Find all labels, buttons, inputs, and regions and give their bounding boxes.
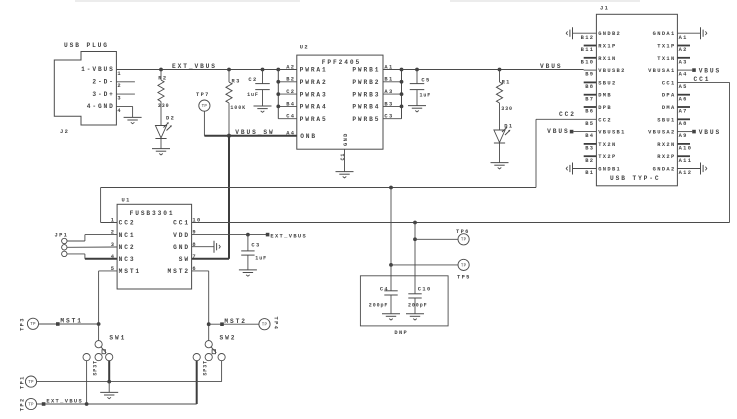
- wire J1 GNDA1 to ground: [677, 32, 700, 34]
- junction right bus row 3: [400, 92, 404, 96]
- J2 pin name 3-D+: [92, 91, 114, 98]
- ground below C5: [408, 106, 426, 112]
- svg-text:A2: A2: [286, 64, 295, 70]
- U2 pin name ONB: [300, 133, 317, 140]
- J1 pin B9: [585, 72, 594, 78]
- net tap MST1: [56, 322, 60, 326]
- svg-text:PWRB5: PWRB5: [352, 116, 380, 123]
- resistor R3: [226, 78, 246, 111]
- svg-text:C1: C1: [340, 153, 346, 161]
- test point TP5: [457, 259, 471, 280]
- LED D2: [155, 116, 175, 139]
- U1 pin name NC2: [119, 244, 136, 251]
- svg-text:NC3: NC3: [119, 256, 136, 263]
- J1 stub B7: [584, 94, 597, 96]
- wire TP2 EXT_VBUS line: [37, 403, 197, 405]
- J1 pin A2: [679, 47, 688, 53]
- U2 pin name PWRB3: [352, 91, 380, 98]
- svg-text:C2: C2: [286, 89, 295, 95]
- ground below U2: [336, 172, 354, 178]
- test point TP6: [456, 229, 470, 245]
- svg-text:VBUS: VBUS: [699, 68, 721, 75]
- wire C10 to ground: [414, 298, 416, 314]
- svg-text:D1: D1: [504, 123, 513, 129]
- wire R1 to D1: [499, 103, 501, 130]
- J2 pin name 4-GND: [87, 103, 115, 110]
- U1 pin 4: [111, 254, 116, 260]
- U2 pin A4: [286, 130, 295, 136]
- svg-text:1: 1: [111, 218, 116, 224]
- svg-text:A5: A5: [679, 84, 688, 90]
- svg-text:PWRB1: PWRB1: [352, 67, 380, 74]
- svg-text:TP7: TP7: [196, 92, 210, 98]
- label USB PLUG: [64, 42, 109, 49]
- U1 pin name VDD: [173, 232, 190, 239]
- wire C5 to ground: [416, 90, 418, 106]
- junction R2: [159, 68, 163, 72]
- svg-text:A11: A11: [679, 158, 693, 164]
- svg-text:B2: B2: [585, 158, 594, 164]
- net label CC2: [559, 111, 576, 118]
- wire C2 to ground: [262, 90, 264, 106]
- svg-text:C3: C3: [384, 114, 393, 120]
- IC U1 FUSB3301: [117, 204, 192, 289]
- wire U2 PWRA1 stub: [278, 69, 297, 71]
- wire TP7 stem: [203, 111, 205, 136]
- wire U1 GND pin: [192, 246, 214, 248]
- U2 pin name PWRB1: [352, 67, 380, 74]
- U1 pin 1: [111, 218, 116, 224]
- svg-text:SW2: SW2: [220, 334, 237, 341]
- J1 pin A7: [679, 109, 688, 115]
- svg-text:2: 2: [117, 83, 122, 89]
- capacitor C3: [241, 243, 267, 262]
- J1 stub B2: [584, 155, 597, 157]
- svg-text:VBUSA1: VBUSA1: [648, 68, 676, 74]
- svg-text:DMA: DMA: [662, 105, 676, 111]
- resistor R2: [158, 76, 170, 110]
- wire VBUS_SW thick: [204, 135, 296, 137]
- J1 pin name RX2P: [657, 154, 675, 160]
- connector J1 USB TYP-C: [596, 14, 677, 186]
- J1 pin name RX1P: [598, 44, 616, 50]
- svg-text:CC1: CC1: [694, 76, 711, 83]
- J1 pin name SBU1: [657, 117, 675, 123]
- U1 pin 6: [192, 266, 197, 272]
- switch SW1: [83, 334, 126, 375]
- wire U2 PWRB5 stub: [383, 118, 402, 120]
- wire EXT_VBUS to C2: [262, 70, 264, 84]
- capacitor C2: [247, 77, 270, 98]
- svg-text:TX1N: TX1N: [657, 56, 675, 62]
- wire JP1 pin3 down: [67, 254, 85, 259]
- U2 pin name PWRA1: [300, 67, 328, 74]
- svg-text:C3: C3: [251, 243, 260, 249]
- svg-text:J1: J1: [600, 5, 609, 11]
- net label EXT_VBUS at VDD: [270, 233, 307, 239]
- svg-text:FPF2405: FPF2405: [322, 59, 361, 66]
- ground at J1 A12: [701, 163, 707, 175]
- svg-text:200pF: 200pF: [408, 302, 428, 308]
- wire MST2 to TP4: [209, 323, 259, 325]
- wire U1 MST1 left: [99, 270, 118, 272]
- U1 pin 3: [111, 242, 116, 248]
- U2 pin name PWRA5: [300, 116, 328, 123]
- junction left bus row 3: [276, 92, 280, 96]
- U2 pin name PWRB4: [352, 104, 380, 111]
- svg-text:TP4: TP4: [273, 317, 279, 331]
- wire EXT_VBUS to R3: [228, 70, 230, 83]
- net label VBUS at A4: [699, 68, 721, 75]
- wire CC1 branch down: [414, 223, 416, 294]
- svg-text:NC1: NC1: [119, 232, 136, 239]
- svg-text:VBUS_SW: VBUS_SW: [235, 129, 274, 136]
- U1 pin name MST2: [168, 268, 190, 275]
- J1 pin name CC1: [662, 80, 676, 86]
- svg-text:C5: C5: [421, 77, 430, 83]
- svg-text:TP: TP: [28, 403, 34, 407]
- wire U2 left input bus: [277, 70, 279, 119]
- test point TP7: [196, 92, 210, 111]
- svg-text:FUSB3301: FUSB3301: [130, 210, 175, 217]
- svg-text:A3: A3: [679, 59, 688, 65]
- svg-text:C2: C2: [248, 77, 257, 83]
- U2 pin B3: [384, 101, 393, 107]
- svg-text:SBU2: SBU2: [598, 80, 616, 86]
- net label EXT_VBUS bottom: [46, 398, 83, 404]
- junction right bus row 1: [400, 68, 404, 72]
- J1 pin name VBUSB2: [598, 68, 626, 74]
- U1 pin 7: [192, 254, 197, 260]
- ground at U1 GND rotated: [214, 241, 220, 253]
- wire U1 MST2 right: [192, 270, 209, 272]
- svg-text:PWRA5: PWRA5: [300, 116, 328, 123]
- svg-text:7: 7: [192, 254, 197, 260]
- J2 pin name 2-D-: [92, 79, 114, 86]
- svg-text:SW1: SW1: [109, 334, 126, 341]
- svg-text:VDD: VDD: [173, 232, 190, 239]
- J1 pin B12: [581, 35, 595, 41]
- J1 pin name RX2N: [657, 142, 675, 148]
- wire J1 VBUSA2 tap: [677, 131, 692, 133]
- J1 pin name RX1N: [598, 56, 616, 62]
- ground below D2: [152, 149, 170, 155]
- wire D2 to ground: [160, 139, 162, 149]
- U2 pin B1: [384, 77, 393, 83]
- svg-text:R2: R2: [158, 76, 167, 82]
- J2 pin 3 stub: [116, 93, 134, 95]
- label J2: [60, 129, 69, 135]
- J1 pin A3: [679, 59, 688, 65]
- svg-text:3-D+: 3-D+: [92, 91, 114, 98]
- svg-text:4-GND: 4-GND: [87, 103, 115, 110]
- svg-text:B8: B8: [585, 84, 594, 90]
- svg-text:MST2: MST2: [168, 268, 190, 275]
- svg-text:1uF: 1uF: [255, 256, 267, 262]
- svg-text:330: 330: [501, 106, 513, 112]
- svg-text:2-D-: 2-D-: [92, 79, 114, 86]
- junction CC2 branch: [389, 186, 393, 190]
- wire U2 PWRB1 stub: [383, 69, 402, 71]
- label U2: [300, 45, 309, 51]
- junction left bus row 4: [276, 105, 280, 109]
- svg-text:B6: B6: [585, 109, 594, 115]
- LED D1: [494, 123, 514, 143]
- U2 pin C3: [384, 114, 393, 120]
- svg-text:USB TYP-C: USB TYP-C: [610, 175, 661, 182]
- J1 pin A5: [679, 84, 688, 90]
- svg-text:A10: A10: [679, 146, 693, 152]
- wire MST1 to TP3: [39, 323, 99, 325]
- wire JP1 pin3 to NC3 thick: [85, 258, 117, 260]
- J2 pin 2 stub: [116, 81, 134, 83]
- svg-text:GNDA1: GNDA1: [653, 31, 676, 37]
- svg-text:GND: GND: [343, 132, 349, 146]
- U2 pin name GND rotated: [343, 132, 349, 146]
- U1 pin name NC3: [119, 256, 136, 263]
- svg-text:VBUSA2: VBUSA2: [648, 130, 676, 136]
- svg-text:GND: GND: [173, 244, 190, 251]
- J1 pin name DPB: [598, 105, 612, 111]
- capacitor C4: [369, 286, 398, 308]
- J1 pin A6: [679, 96, 688, 102]
- J1 pin name GNDB2: [598, 31, 621, 37]
- wire TP1 to SW2 right: [37, 381, 222, 383]
- junction R3: [227, 68, 231, 72]
- svg-text:VBUSB2: VBUSB2: [598, 68, 626, 74]
- ground at J2 pin 4: [124, 117, 142, 123]
- net label EXT_VBUS: [172, 63, 217, 70]
- svg-text:B4: B4: [585, 133, 594, 139]
- svg-text:10: 10: [192, 218, 201, 224]
- svg-text:VBUS: VBUS: [699, 129, 721, 136]
- svg-text:B1: B1: [384, 77, 393, 83]
- svg-text:B12: B12: [581, 35, 595, 41]
- svg-text:A8: A8: [679, 121, 688, 127]
- U1 pin 9: [192, 230, 197, 236]
- wire U1 VDD to EXT_VBUS: [192, 234, 266, 236]
- J1 pin name TX1N: [657, 56, 675, 62]
- J1 pin name CC2: [598, 117, 612, 123]
- junction MST2: [207, 322, 211, 326]
- wire U2 PWRA3 stub: [278, 93, 297, 95]
- svg-text:TP: TP: [202, 105, 208, 109]
- J2 pin number 4: [117, 108, 122, 114]
- U1 pin name GND: [173, 244, 190, 251]
- wire EXT_VBUS rail: [116, 69, 278, 71]
- wire VBUS_SW vertical to U1 SW: [228, 136, 230, 259]
- svg-text:A1: A1: [384, 64, 393, 70]
- J1 pin name VBUSA1: [648, 68, 676, 74]
- J1 pin B5: [585, 121, 594, 127]
- J1 pin B3: [585, 146, 594, 152]
- J1 pin A11: [679, 158, 693, 164]
- svg-text:TX2N: TX2N: [598, 142, 616, 148]
- svg-text:1-VBUS: 1-VBUS: [81, 66, 115, 73]
- svg-text:VBUSB1: VBUSB1: [598, 130, 626, 136]
- wire JP1 pin1 to NC1: [67, 235, 117, 241]
- U2 pin A3: [384, 89, 393, 95]
- wire SW2 right down: [221, 361, 223, 382]
- test point TP2: [19, 397, 36, 411]
- U2 pin A2: [286, 64, 295, 70]
- J1 pin B4: [585, 133, 594, 139]
- J1 stub B8: [584, 81, 597, 83]
- junction C5: [415, 68, 419, 72]
- svg-text:USB PLUG: USB PLUG: [64, 42, 109, 49]
- wire R2 to D2: [160, 102, 162, 126]
- svg-text:PWRA1: PWRA1: [300, 67, 328, 74]
- wire CC1 horizontal: [192, 222, 730, 224]
- U1 pin name MST1: [119, 268, 141, 275]
- svg-text:1uF: 1uF: [247, 92, 259, 98]
- svg-text:SP3T: SP3T: [92, 360, 98, 376]
- IC U2 FPF2405: [297, 55, 383, 149]
- wire SW1 right to TP1 net thick: [108, 361, 110, 382]
- J1 pin A9: [679, 133, 688, 139]
- svg-text:CC1: CC1: [662, 80, 676, 86]
- svg-text:MST1: MST1: [60, 318, 82, 325]
- svg-text:A6: A6: [679, 96, 688, 102]
- svg-text:C4: C4: [286, 114, 295, 120]
- junction MST1: [97, 322, 101, 326]
- svg-text:A2: A2: [679, 47, 688, 53]
- label U1: [122, 197, 131, 203]
- J1 pin name DMB: [598, 93, 612, 99]
- U2 pin C1: [340, 153, 346, 161]
- svg-text:B10: B10: [581, 59, 595, 65]
- net label CC1: [694, 76, 711, 83]
- svg-text:CC2: CC2: [119, 220, 136, 227]
- wire SW2 left to EXT_VBUS thick: [196, 361, 198, 404]
- J2 pin name 1-VBUS: [81, 66, 115, 73]
- wire J1 CC2 pin: [536, 118, 596, 120]
- connector JP1: [62, 238, 67, 256]
- svg-text:SW: SW: [179, 256, 190, 263]
- net tap MST2: [220, 322, 224, 326]
- wire MST1 down to SW1: [98, 271, 100, 341]
- capacitor C10: [408, 286, 432, 308]
- junction right bus row 2: [400, 80, 404, 84]
- U2 pin B4: [286, 101, 295, 107]
- label FUSB3301: [130, 210, 175, 217]
- svg-text:NC2: NC2: [119, 244, 136, 251]
- J1 pin B7: [585, 96, 594, 102]
- svg-text:GNDB2: GNDB2: [598, 31, 621, 37]
- U2 pin name PWRA4: [300, 104, 328, 111]
- net tap VBUS at A9: [692, 130, 696, 134]
- ground below SW1: [100, 392, 118, 398]
- label DNP: [394, 330, 408, 336]
- U1 pin 5: [111, 266, 116, 272]
- svg-text:200pF: 200pF: [369, 302, 389, 308]
- svg-text:A1: A1: [679, 35, 688, 41]
- junction C3: [246, 233, 250, 237]
- svg-text:1: 1: [117, 71, 122, 77]
- J1 pin B2: [585, 158, 594, 164]
- wire EXT_VBUS to R2: [160, 70, 162, 81]
- label USB TYP-C: [610, 175, 661, 182]
- wire U2 right output bus: [401, 70, 403, 119]
- wire VBUS to C5: [416, 70, 418, 84]
- J1 pin name VBUSB1: [598, 130, 626, 136]
- J1 pin B6: [585, 109, 594, 115]
- junction left bus row 2: [276, 80, 280, 84]
- svg-text:TX2P: TX2P: [598, 154, 616, 160]
- svg-text:GNDA2: GNDA2: [653, 167, 676, 173]
- wire MST2 down to SW2: [208, 271, 210, 341]
- U2 pin B2: [286, 77, 295, 83]
- svg-text:TP: TP: [28, 381, 34, 385]
- svg-text:B3: B3: [384, 101, 393, 107]
- net tap EXT_VBUS bottom: [42, 402, 46, 406]
- wire to C3: [247, 235, 249, 251]
- svg-text:B1: B1: [585, 170, 594, 176]
- wire U2 GND pin: [344, 149, 346, 171]
- net tap VBUS at A4: [692, 68, 696, 72]
- wire CC1 vertical right: [729, 82, 731, 222]
- J1 stub A2: [677, 45, 690, 47]
- wire CC2 to U1 pin 1: [101, 222, 118, 224]
- svg-text:B2: B2: [286, 77, 295, 83]
- svg-text:R1: R1: [502, 79, 511, 85]
- wire to TP5: [391, 264, 458, 266]
- svg-text:J2: J2: [60, 129, 69, 135]
- switch SW2: [193, 334, 236, 375]
- wire VBUS to R1: [499, 70, 501, 83]
- svg-text:A12: A12: [679, 170, 693, 176]
- svg-text:TP3: TP3: [19, 317, 25, 331]
- svg-text:PWRA4: PWRA4: [300, 104, 328, 111]
- svg-text:EXT_VBUS: EXT_VBUS: [46, 398, 83, 404]
- J1 stub A3: [677, 57, 690, 59]
- wire C3 to ground: [247, 255, 249, 270]
- test point TP1: [19, 375, 36, 389]
- svg-text:B3: B3: [585, 146, 594, 152]
- svg-text:CC1: CC1: [173, 220, 190, 227]
- wire J1 CC1 pin: [677, 81, 729, 83]
- svg-text:RX2P: RX2P: [657, 154, 675, 160]
- J2 pin number 1: [117, 71, 122, 77]
- wire J1 VBUSB2 stub: [584, 69, 597, 71]
- J1 pin A12: [679, 170, 693, 176]
- junction CC1 branch: [413, 221, 417, 225]
- wire J1 GNDB2 to ground: [573, 32, 597, 34]
- svg-text:DNP: DNP: [394, 330, 408, 336]
- U1 pin name CC2: [119, 220, 136, 227]
- svg-text:C10: C10: [418, 286, 432, 292]
- ground below C10: [406, 314, 424, 320]
- J1 pin name SBU2: [598, 80, 616, 86]
- ground at J1 B1: [566, 163, 572, 175]
- wire CC2 down to U1: [100, 188, 102, 223]
- wire J1 VBUSA1 tap: [677, 69, 692, 71]
- U2 pin A1: [384, 64, 393, 70]
- U1 pin 8: [192, 242, 197, 248]
- wire J1 VBUSB1 tap: [574, 131, 597, 133]
- junction VBUS_SW: [227, 134, 231, 138]
- svg-text:TP2: TP2: [19, 397, 25, 411]
- wire U2 PWRA2 stub: [278, 81, 297, 83]
- junction SW1 left: [85, 402, 89, 406]
- svg-text:SBU1: SBU1: [657, 117, 675, 123]
- svg-text:RX1N: RX1N: [598, 56, 616, 62]
- svg-text:TP: TP: [461, 239, 467, 243]
- label JP1: [55, 233, 69, 239]
- svg-text:3: 3: [117, 96, 122, 102]
- net tap VBUS at B4: [570, 130, 574, 134]
- connector J2 USB PLUG: [54, 52, 116, 126]
